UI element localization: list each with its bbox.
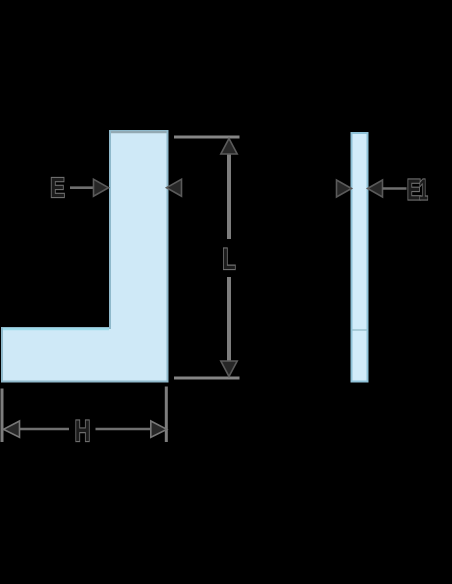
- side bar joint line: [353, 329, 367, 331]
- side view thin bar: [352, 133, 368, 382]
- H extension line left: [1, 389, 4, 443]
- svg-text:1: 1: [419, 173, 428, 205]
- svg-text:H: H: [75, 413, 91, 447]
- dimension line L (lower segment): [227, 277, 231, 363]
- H dimension line left segment: [18, 428, 69, 431]
- arrowhead E1 right-pointing (left of side bar): [337, 180, 352, 197]
- bottom extension line: [174, 377, 240, 380]
- arrowhead E1 left-pointing (right of side bar): [368, 180, 383, 197]
- L-shape top edge highlight: [111, 131, 167, 133]
- top extension line: [174, 136, 240, 139]
- H dimension line right segment: [96, 428, 153, 431]
- E1 leader line: [383, 187, 407, 190]
- arrowhead L bottom: [221, 361, 237, 377]
- dimension line L (upper segment): [227, 152, 231, 239]
- svg-text:L: L: [222, 241, 235, 275]
- arrowhead E left-pointing: [167, 179, 182, 196]
- arrowhead E right-pointing: [94, 179, 109, 196]
- svg-text:E: E: [50, 172, 65, 203]
- arrowhead L top: [221, 139, 237, 155]
- flat square L-shape (front view): [2, 131, 168, 382]
- arrowhead H right-pointing: [151, 421, 167, 437]
- arrowhead H left-pointing: [4, 421, 20, 437]
- E leader line: [70, 186, 95, 189]
- H extension line right: [165, 387, 168, 443]
- L-shape foot top edge highlight: [3, 328, 109, 330]
